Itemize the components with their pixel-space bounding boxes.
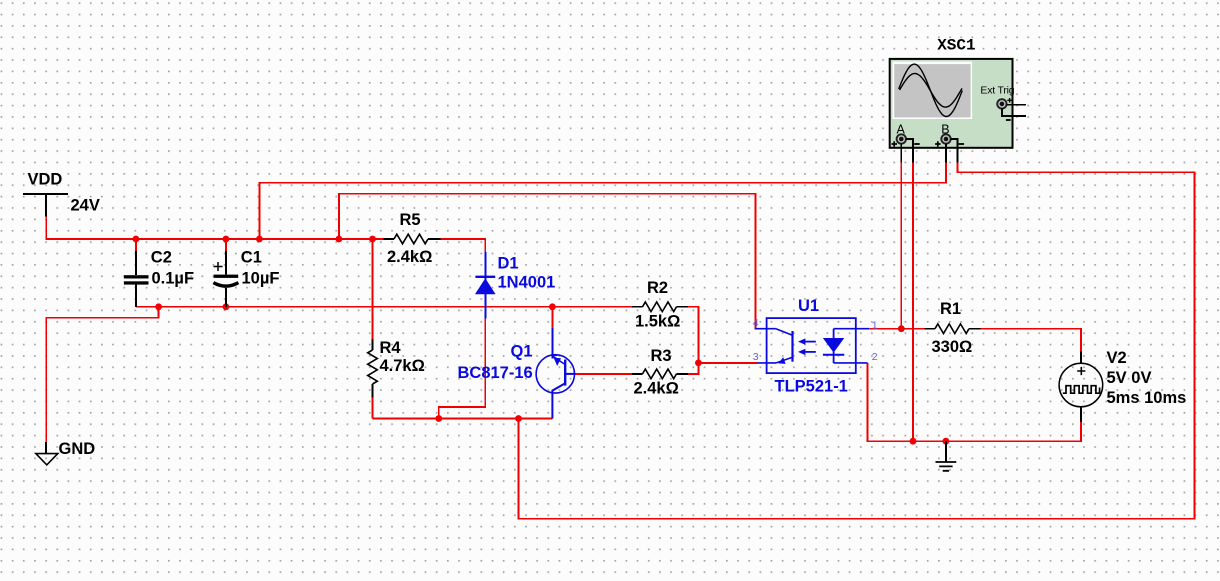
wire D1 anode down and to bottom node: [439, 318, 486, 418]
svg-text:R3: R3: [651, 347, 672, 365]
resistor R2: [632, 302, 688, 312]
wire V2 bottom to ground net and U1 pin 2: [868, 363, 1082, 441]
resistor R1: [924, 324, 980, 334]
svg-text:Q1: Q1: [511, 343, 533, 361]
svg-text:C2: C2: [151, 249, 172, 267]
svg-text:R2: R2: [647, 279, 668, 297]
svg-text:3: 3: [753, 351, 759, 363]
wire C2 top stub: [135, 239, 137, 251]
svg-text:TLP521-1: TLP521-1: [775, 377, 848, 395]
wire rail down to R4: [372, 239, 374, 339]
op-to-coupler U1 TLP521-1: [755, 318, 870, 373]
svg-text:5ms 10ms: 5ms 10ms: [1107, 389, 1187, 407]
wire branch to left GND: [46, 307, 158, 442]
wire R4 bottom: [372, 397, 374, 418]
svg-text:5V 0V: 5V 0V: [1107, 369, 1152, 387]
svg-text:330Ω: 330Ω: [932, 338, 973, 356]
svg-text:BC817-16: BC817-16: [458, 364, 533, 382]
capacitor C1 polarized: [213, 251, 238, 307]
svg-text:C1: C1: [241, 249, 262, 267]
wire Q1 collector stub: [551, 307, 553, 328]
resistor R4: [368, 339, 378, 397]
diode D1 1N4001: [475, 252, 496, 318]
svg-text:R1: R1: [940, 300, 961, 318]
wire R2 right / R3 right vertical link: [688, 307, 699, 374]
ground GND (triangle, left): [36, 442, 58, 465]
ground (3-bar, right): [936, 441, 957, 471]
wire scope A+ down to pin1 node: [900, 163, 902, 329]
junction dots: [133, 236, 950, 445]
svg-text:4.7kΩ: 4.7kΩ: [380, 357, 425, 375]
wire R5 right to D1 cathode: [373, 239, 486, 252]
wire main horizontal net y=306.8 (C2/C1 bottom to R2): [136, 306, 632, 308]
svg-text:GND: GND: [59, 440, 96, 458]
terminal B: [935, 134, 964, 148]
wire Q1 base to R3: [576, 373, 632, 375]
svg-text:1N4001: 1N4001: [498, 274, 556, 292]
svg-text:VDD: VDD: [28, 171, 63, 189]
svg-text:2.4kΩ: 2.4kΩ: [387, 248, 432, 266]
svg-text:2.4kΩ: 2.4kΩ: [634, 380, 679, 398]
svg-text:2: 2: [872, 351, 878, 363]
svg-text:U1: U1: [798, 297, 819, 315]
terminal Ext Trig: [997, 98, 1026, 120]
svg-text:4: 4: [753, 317, 759, 329]
svg-text:1.5kΩ: 1.5kΩ: [635, 313, 680, 331]
wire C1 top stub: [225, 239, 227, 251]
resistor R5: [384, 234, 441, 244]
svg-text:R4: R4: [380, 339, 402, 357]
scope terminal stubs below: [901, 148, 957, 163]
source V2 square-wave: [1059, 351, 1103, 422]
wire U1 pin1 to R1: [869, 328, 924, 330]
svg-text:D1: D1: [498, 254, 519, 272]
terminal A: [892, 134, 920, 148]
wire down to long bottom net, right riser and scope B-: [519, 163, 1195, 519]
svg-text:Ext Trig: Ext Trig: [980, 85, 1014, 97]
resistor R3: [632, 369, 688, 379]
wire R1 right to V2 top: [980, 329, 1081, 352]
wire VDD stub to main 24V rail: [46, 216, 372, 239]
instrument XSC1 oscilloscope: [890, 59, 1013, 148]
scope trace small sine: [900, 74, 962, 108]
scope trace big sine: [899, 64, 963, 116]
wire scope A- down to ground net: [912, 163, 914, 442]
wire junction to U1 pin 3: [698, 362, 757, 364]
svg-text:1: 1: [872, 319, 878, 331]
svg-text:V2: V2: [1107, 349, 1127, 367]
wire rail branch up-over to U1 pin 4: [339, 194, 756, 329]
svg-text:XSC1: XSC1: [937, 37, 975, 55]
wire rail branch up to scope B+ (y=182.7): [259, 163, 946, 240]
svg-text:10µF: 10µF: [242, 270, 280, 288]
wire emitter/ground bus y=418.5: [373, 418, 553, 420]
svg-text:24V: 24V: [71, 197, 100, 215]
power VDD symbol: [23, 194, 68, 216]
svg-text:0.1µF: 0.1µF: [152, 270, 195, 288]
transistor Q1 BC817-16: [536, 328, 576, 419]
svg-text:R5: R5: [400, 211, 421, 229]
capacitor C2: [124, 251, 149, 307]
